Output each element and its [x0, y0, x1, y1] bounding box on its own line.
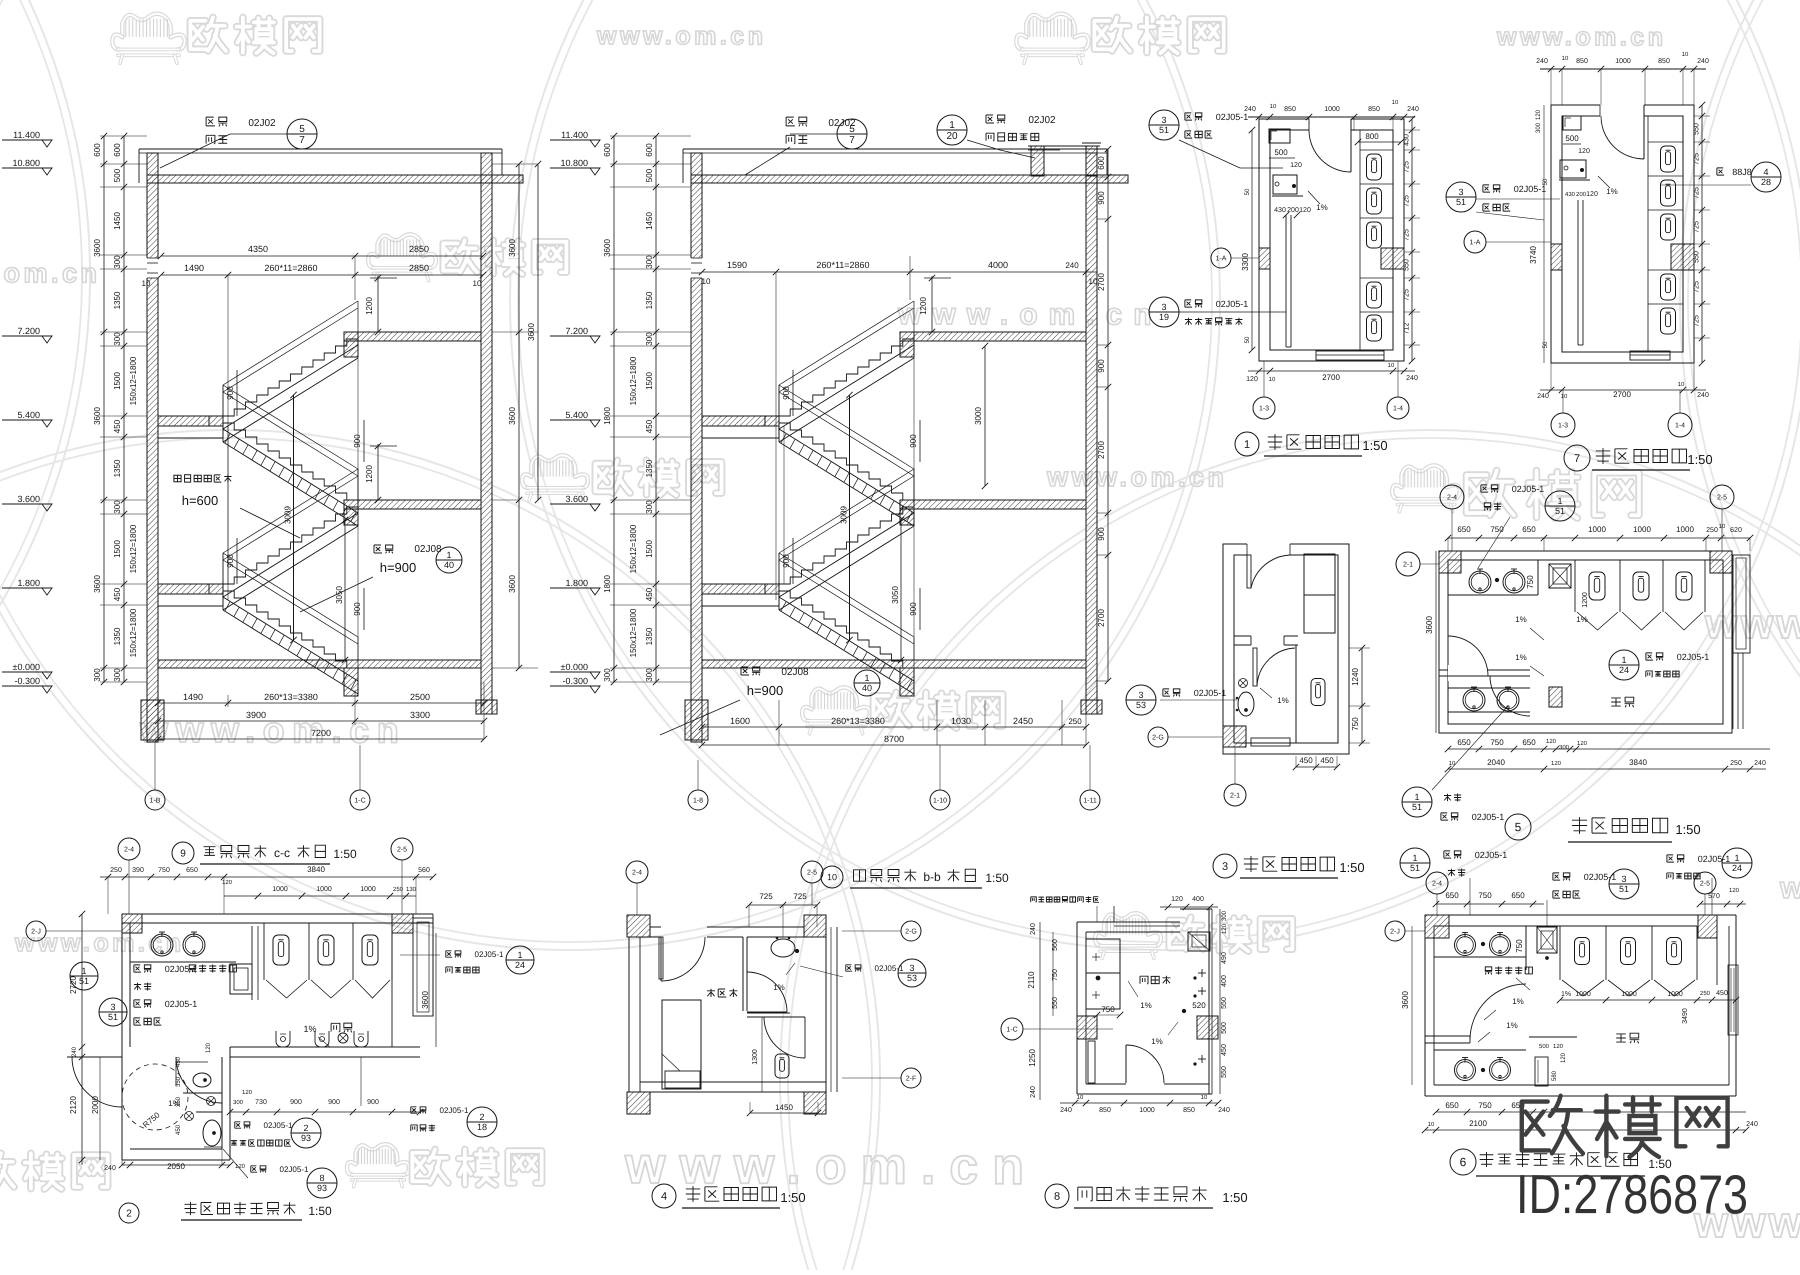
svg-text:1450: 1450: [113, 212, 122, 230]
svg-text:4350: 4350: [248, 244, 268, 254]
svg-text:10: 10: [1562, 56, 1569, 62]
svg-text:725: 725: [1404, 161, 1411, 173]
svg-text:250: 250: [1700, 991, 1711, 997]
svg-text:150x12=1800: 150x12=1800: [129, 356, 138, 405]
svg-text:2050: 2050: [167, 1162, 185, 1171]
svg-text:1350: 1350: [113, 627, 122, 645]
svg-text:10.800: 10.800: [12, 158, 40, 168]
svg-text:1500: 1500: [645, 372, 654, 390]
svg-text:2700: 2700: [1322, 373, 1340, 382]
svg-text:7.200: 7.200: [565, 326, 588, 336]
svg-text:3840: 3840: [1629, 758, 1647, 767]
svg-text:3600: 3600: [1425, 616, 1434, 634]
svg-text:1: 1: [864, 673, 869, 683]
svg-text:200: 200: [1576, 192, 1587, 198]
svg-text:712: 712: [1404, 323, 1411, 335]
svg-text:1350: 1350: [113, 291, 122, 309]
svg-text:2-5: 2-5: [397, 846, 407, 853]
svg-text:2120: 2120: [69, 1096, 78, 1114]
svg-text:300: 300: [113, 255, 122, 269]
svg-text:725: 725: [759, 892, 773, 901]
svg-text:900: 900: [226, 554, 235, 568]
svg-text:250: 250: [1068, 717, 1082, 726]
svg-text:1.800: 1.800: [565, 578, 588, 588]
svg-text:b-b: b-b: [923, 870, 941, 884]
svg-text:1000: 1000: [272, 886, 288, 893]
svg-text:2-4: 2-4: [124, 846, 134, 853]
svg-text:650: 650: [1522, 525, 1536, 534]
svg-text:02J05-1: 02J05-1: [1216, 299, 1249, 309]
svg-text:3300: 3300: [1241, 253, 1250, 271]
svg-text:1490: 1490: [183, 692, 203, 702]
svg-text:2700: 2700: [1097, 609, 1106, 627]
svg-text:1500: 1500: [113, 372, 122, 390]
svg-text:900: 900: [226, 386, 235, 400]
svg-text:02J05-1: 02J05-1: [875, 964, 904, 973]
svg-text:430: 430: [1565, 192, 1576, 198]
svg-text:02J05-1: 02J05-1: [1194, 688, 1227, 698]
svg-text:9: 9: [180, 848, 186, 859]
svg-text:10: 10: [827, 872, 837, 882]
svg-text:1600: 1600: [730, 716, 750, 726]
svg-text:1%: 1%: [1506, 1021, 1518, 1030]
svg-text:130: 130: [406, 887, 417, 893]
svg-text:1-A: 1-A: [1470, 239, 1481, 246]
svg-text:240: 240: [1697, 58, 1709, 65]
svg-text:450: 450: [113, 419, 122, 433]
svg-text:1-3: 1-3: [1259, 405, 1269, 412]
svg-text:650: 650: [1457, 738, 1471, 747]
svg-text:1000: 1000: [1633, 525, 1651, 534]
svg-text:3: 3: [1161, 302, 1166, 312]
svg-text:88J8: 88J8: [1732, 167, 1752, 177]
svg-text:10: 10: [1392, 100, 1399, 106]
svg-text:600: 600: [645, 143, 654, 157]
svg-text:900: 900: [909, 602, 918, 616]
svg-text:1000: 1000: [1615, 58, 1631, 65]
svg-text:4: 4: [661, 1191, 667, 1203]
svg-text:1: 1: [1412, 853, 1417, 863]
svg-text:240: 240: [104, 1165, 116, 1172]
svg-text:1-C: 1-C: [1006, 1026, 1017, 1033]
svg-text:1200: 1200: [919, 297, 928, 315]
svg-text:02J05-1: 02J05-1: [1514, 184, 1547, 194]
svg-text:560: 560: [418, 867, 430, 874]
svg-text:1350: 1350: [645, 459, 654, 477]
svg-text:550: 550: [1221, 997, 1228, 1009]
svg-text:550: 550: [1221, 1066, 1228, 1078]
svg-text:51: 51: [1159, 125, 1169, 135]
svg-text:450: 450: [1716, 990, 1728, 997]
svg-text:300: 300: [93, 668, 102, 682]
svg-text:10: 10: [702, 277, 711, 286]
svg-text:3600: 3600: [93, 239, 102, 257]
svg-text:2: 2: [126, 1208, 132, 1219]
svg-text:150x12=1800: 150x12=1800: [129, 524, 138, 573]
svg-text:www.om.cn: www.om.cn: [897, 298, 1163, 332]
svg-text:5.400: 5.400: [17, 410, 40, 420]
svg-text:1:50: 1:50: [1222, 1190, 1247, 1205]
svg-text:750: 750: [1478, 891, 1492, 900]
svg-text:2-1: 2-1: [1230, 792, 1240, 799]
svg-text:450: 450: [113, 587, 122, 601]
svg-text:725: 725: [1404, 289, 1411, 301]
svg-text:7: 7: [299, 135, 305, 146]
svg-text:3600: 3600: [421, 991, 430, 1009]
svg-text:53: 53: [1136, 700, 1146, 710]
svg-text:1800: 1800: [603, 407, 612, 425]
svg-text:02J05-1: 02J05-1: [1472, 812, 1505, 822]
svg-text:10: 10: [1269, 377, 1276, 383]
svg-text:300: 300: [113, 668, 122, 682]
svg-text:1:50: 1:50: [308, 1204, 332, 1218]
svg-text:7: 7: [849, 135, 855, 146]
svg-text:1.800: 1.800: [17, 578, 40, 588]
svg-text:3300: 3300: [410, 710, 430, 720]
svg-text:3600: 3600: [508, 407, 517, 425]
svg-text:4: 4: [1763, 167, 1768, 177]
svg-text:750: 750: [1515, 939, 1524, 953]
svg-text:1: 1: [949, 120, 955, 131]
svg-text:3600: 3600: [93, 407, 102, 425]
svg-text:1800: 1800: [603, 575, 612, 593]
svg-text:1000: 1000: [1139, 1107, 1155, 1114]
svg-text:450: 450: [176, 1056, 182, 1067]
svg-text:7: 7: [1574, 453, 1580, 465]
svg-text:3740: 3740: [1529, 246, 1538, 264]
svg-text:120: 120: [1729, 888, 1740, 894]
svg-text:120: 120: [1561, 1052, 1567, 1063]
svg-text:2-G: 2-G: [1152, 734, 1164, 741]
svg-text:500: 500: [113, 168, 122, 182]
svg-text:2850: 2850: [409, 263, 429, 273]
svg-text:51: 51: [108, 1012, 118, 1022]
svg-text:1-4: 1-4: [1393, 405, 1403, 412]
svg-text:300: 300: [1222, 910, 1228, 921]
svg-text:8: 8: [1054, 1191, 1060, 1203]
svg-text:1: 1: [1734, 853, 1739, 863]
svg-text:-0.300: -0.300: [14, 676, 40, 686]
svg-text:240: 240: [1746, 1121, 1758, 1128]
svg-text:www.om.cn: www.om.cn: [1046, 462, 1228, 492]
svg-text:2-4: 2-4: [632, 869, 642, 876]
svg-text:1%: 1%: [1561, 991, 1571, 998]
svg-text:2100: 2100: [1469, 1119, 1487, 1128]
svg-text:650: 650: [1445, 1101, 1459, 1110]
svg-text:02J02: 02J02: [1028, 115, 1056, 126]
svg-text:300: 300: [113, 500, 122, 514]
svg-text:40: 40: [862, 683, 872, 693]
svg-text:570: 570: [1708, 893, 1720, 900]
svg-text:725: 725: [1694, 187, 1701, 199]
svg-text:1:50: 1:50: [1687, 452, 1712, 467]
svg-text:725: 725: [1694, 315, 1701, 327]
svg-text:850: 850: [1099, 1107, 1111, 1114]
svg-text:2-G: 2-G: [905, 928, 917, 935]
svg-text:3: 3: [1161, 115, 1166, 125]
svg-text:11.400: 11.400: [561, 130, 588, 140]
svg-text:500: 500: [645, 168, 654, 182]
svg-text:120: 120: [222, 880, 233, 886]
svg-text:93: 93: [301, 1133, 311, 1143]
svg-text:02J05-1: 02J05-1: [1475, 850, 1508, 860]
svg-text:10: 10: [1077, 1095, 1084, 1101]
svg-text:1: 1: [1621, 655, 1626, 665]
svg-text:3: 3: [1458, 187, 1463, 197]
svg-text:www.om.cn: www.om.cn: [596, 22, 767, 50]
svg-text:300: 300: [1536, 122, 1542, 133]
svg-text:18: 18: [477, 1122, 487, 1132]
svg-text:1450: 1450: [775, 1103, 793, 1112]
svg-text:2-5: 2-5: [1700, 880, 1710, 887]
svg-text:10: 10: [142, 279, 151, 288]
svg-text:1200: 1200: [365, 297, 374, 315]
svg-text:1350: 1350: [645, 627, 654, 645]
svg-text:1%: 1%: [1515, 615, 1527, 624]
svg-text:10: 10: [1089, 277, 1098, 286]
svg-text:260*11=2860: 260*11=2860: [816, 260, 869, 270]
svg-text:51: 51: [1555, 506, 1565, 516]
svg-text:600: 600: [113, 143, 122, 157]
svg-text:1:50: 1:50: [1339, 860, 1364, 875]
svg-text:10: 10: [1678, 382, 1685, 388]
svg-text:650: 650: [1511, 891, 1525, 900]
svg-text:51: 51: [79, 976, 89, 986]
svg-text:550: 550: [1404, 259, 1411, 271]
svg-text:1%: 1%: [1512, 997, 1524, 1006]
svg-text:500: 500: [1274, 148, 1288, 157]
svg-text:120: 120: [1578, 148, 1590, 155]
svg-text:2700: 2700: [1097, 273, 1106, 291]
svg-text:50: 50: [1245, 336, 1251, 343]
svg-text:260*11=2860: 260*11=2860: [264, 263, 317, 273]
svg-text:3: 3: [909, 963, 914, 973]
svg-text:260*13=3380: 260*13=3380: [831, 716, 885, 726]
svg-text:600: 600: [603, 143, 612, 157]
svg-text:10: 10: [1270, 104, 1277, 110]
svg-text:3600: 3600: [603, 239, 612, 257]
svg-text:1490: 1490: [184, 263, 204, 273]
svg-text:750: 750: [1101, 1005, 1115, 1014]
svg-text:250: 250: [110, 867, 122, 874]
svg-text:240: 240: [1060, 1107, 1072, 1114]
svg-text:725: 725: [1404, 195, 1411, 207]
svg-text:02J05-1: 02J05-1: [280, 1165, 309, 1174]
svg-text:240: 240: [1030, 1086, 1037, 1098]
svg-text:6: 6: [1460, 1155, 1467, 1169]
svg-text:3: 3: [1621, 874, 1626, 884]
svg-text:560: 560: [1052, 939, 1059, 951]
svg-text:1%: 1%: [1576, 615, 1588, 624]
svg-text:±0.000: ±0.000: [561, 662, 588, 672]
svg-text:430: 430: [1274, 207, 1286, 214]
svg-text:900: 900: [782, 386, 791, 400]
svg-text:120: 120: [1171, 896, 1183, 903]
svg-text:620: 620: [1730, 527, 1742, 534]
svg-text:300: 300: [113, 332, 122, 346]
svg-text:900: 900: [1097, 191, 1106, 205]
svg-text:02J05-1: 02J05-1: [440, 1106, 469, 1115]
svg-text:3: 3: [1138, 690, 1143, 700]
svg-text:1: 1: [446, 550, 451, 560]
svg-text:900: 900: [909, 434, 918, 448]
svg-text:50: 50: [1245, 188, 1251, 195]
svg-text:28: 28: [1761, 177, 1771, 187]
svg-text:900: 900: [782, 554, 791, 568]
svg-text:450: 450: [176, 1124, 182, 1135]
svg-text:2: 2: [479, 1112, 484, 1122]
svg-text:240: 240: [1537, 393, 1549, 400]
svg-text:900: 900: [367, 1099, 379, 1106]
svg-text:2-5: 2-5: [807, 869, 817, 876]
svg-text:8: 8: [319, 1173, 324, 1183]
svg-text:725: 725: [793, 892, 807, 901]
svg-text:3: 3: [110, 1002, 115, 1012]
svg-text:240: 240: [1536, 58, 1548, 65]
svg-text:120: 120: [1551, 761, 1562, 767]
svg-text:7.200: 7.200: [17, 326, 40, 336]
svg-text:1:50: 1:50: [1362, 438, 1387, 453]
svg-text:750: 750: [158, 867, 170, 874]
svg-text:2-5: 2-5: [1717, 494, 1727, 501]
svg-text:350: 350: [176, 1096, 182, 1107]
svg-text:20: 20: [946, 131, 958, 142]
svg-text:2: 2: [303, 1123, 308, 1133]
svg-text:1000: 1000: [1667, 991, 1683, 998]
svg-text:4000: 4000: [988, 260, 1008, 270]
svg-text:02J02: 02J02: [248, 118, 276, 129]
svg-text:2000: 2000: [91, 1096, 100, 1114]
svg-text:2-J: 2-J: [31, 928, 41, 935]
svg-text:725: 725: [1694, 153, 1701, 165]
svg-text:5: 5: [849, 124, 855, 135]
svg-text:1000: 1000: [1676, 525, 1694, 534]
svg-text:2-4: 2-4: [1432, 880, 1442, 887]
svg-text:1: 1: [81, 966, 86, 976]
svg-text:3600: 3600: [508, 239, 517, 257]
svg-text:3600: 3600: [527, 323, 536, 341]
svg-text:1000: 1000: [1575, 991, 1591, 998]
svg-text:11.400: 11.400: [13, 130, 40, 140]
svg-text:2-1: 2-1: [1403, 561, 1413, 568]
svg-text:120: 120: [1536, 109, 1542, 120]
svg-text:3490: 3490: [1682, 1008, 1689, 1024]
svg-text:1-8: 1-8: [693, 797, 703, 804]
svg-text:240: 240: [1407, 106, 1419, 113]
svg-text:850: 850: [1183, 1107, 1195, 1114]
svg-text:240: 240: [72, 1046, 78, 1057]
svg-text:1250: 1250: [1028, 1049, 1037, 1067]
svg-text:850: 850: [1368, 106, 1380, 113]
svg-text:300: 300: [233, 1100, 244, 1106]
svg-text:1500: 1500: [645, 540, 654, 558]
svg-text:51: 51: [1619, 884, 1629, 894]
svg-text:120: 120: [1299, 207, 1311, 214]
svg-text:1: 1: [517, 950, 522, 960]
svg-text:750: 750: [1478, 1101, 1492, 1110]
svg-text:240: 240: [1754, 760, 1766, 767]
svg-text:120: 120: [1577, 741, 1588, 747]
svg-text:8700: 8700: [884, 734, 904, 744]
svg-text:10: 10: [1388, 363, 1395, 369]
svg-text:725: 725: [1404, 229, 1411, 241]
svg-text:1%: 1%: [1606, 187, 1618, 196]
svg-text:850: 850: [1658, 58, 1670, 65]
svg-text:10.800: 10.800: [560, 158, 588, 168]
svg-text:120: 120: [242, 1090, 253, 1096]
svg-text:10: 10: [1449, 761, 1456, 767]
svg-text:2500: 2500: [410, 692, 430, 702]
svg-text:10: 10: [1428, 1122, 1435, 1128]
svg-text:120: 120: [1290, 162, 1302, 169]
svg-text:02J05-1: 02J05-1: [264, 1121, 293, 1130]
svg-text:2040: 2040: [1487, 758, 1505, 767]
svg-text:51: 51: [1412, 802, 1422, 812]
svg-text:2-4: 2-4: [1447, 494, 1457, 501]
svg-text:1%: 1%: [1151, 1037, 1163, 1046]
svg-text:650: 650: [1522, 738, 1536, 747]
svg-text:725: 725: [1694, 221, 1701, 233]
svg-text:120: 120: [1553, 1044, 1564, 1050]
svg-text:900: 900: [328, 1099, 340, 1106]
svg-text:40: 40: [444, 560, 454, 570]
svg-text:3900: 3900: [246, 710, 266, 720]
svg-text:1%: 1%: [1316, 203, 1328, 212]
svg-text:24: 24: [515, 960, 525, 970]
svg-text:2-J: 2-J: [1390, 928, 1400, 935]
svg-text:3009: 3009: [284, 506, 293, 524]
svg-text:3.600: 3.600: [565, 494, 588, 504]
svg-text:h=600: h=600: [182, 493, 219, 508]
svg-text:1500: 1500: [113, 540, 122, 558]
svg-text:550: 550: [1694, 251, 1701, 263]
svg-text:10: 10: [1719, 524, 1726, 530]
svg-text:02J05-1: 02J05-1: [165, 964, 198, 974]
svg-text:24: 24: [1732, 863, 1742, 873]
svg-text:800: 800: [1365, 132, 1379, 141]
svg-text:120: 120: [206, 1042, 212, 1053]
svg-text:51: 51: [1410, 863, 1420, 873]
svg-text:120: 120: [1222, 923, 1228, 934]
svg-text:10: 10: [1682, 52, 1689, 58]
svg-text:5: 5: [1515, 820, 1522, 834]
svg-text:250: 250: [1730, 760, 1742, 767]
svg-text:400: 400: [1192, 896, 1204, 903]
svg-text:5.400: 5.400: [565, 410, 588, 420]
svg-text:1240: 1240: [1351, 668, 1360, 686]
svg-text:600: 600: [1097, 156, 1106, 170]
svg-text:725: 725: [1694, 281, 1701, 293]
svg-text:650: 650: [186, 867, 198, 874]
svg-text:1300: 1300: [752, 1049, 759, 1065]
svg-text:-0.300: -0.300: [562, 676, 588, 686]
svg-text:1200: 1200: [365, 465, 374, 483]
svg-text:2850: 2850: [409, 244, 429, 254]
svg-text:600: 600: [93, 143, 102, 157]
svg-text:150x12=1800: 150x12=1800: [629, 356, 638, 405]
svg-text:02J05-1: 02J05-1: [165, 999, 198, 1009]
svg-text:240: 240: [1697, 392, 1709, 399]
svg-text:1000: 1000: [360, 886, 376, 893]
svg-text:1200: 1200: [1582, 592, 1589, 608]
svg-text:900: 900: [290, 1099, 302, 1106]
svg-text:24: 24: [1619, 665, 1629, 675]
svg-text:750: 750: [1052, 969, 1059, 981]
svg-text:19: 19: [1159, 312, 1169, 322]
svg-text:240: 240: [1218, 1107, 1230, 1114]
svg-text:650: 650: [1457, 525, 1471, 534]
svg-text:02J05-1: 02J05-1: [1677, 652, 1710, 662]
